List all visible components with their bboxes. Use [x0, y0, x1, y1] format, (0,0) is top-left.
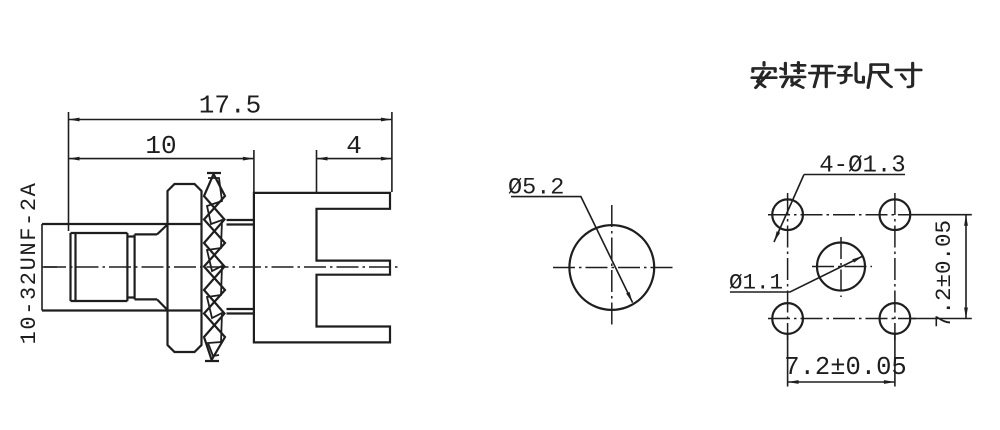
svg-text:17.5: 17.5 — [199, 91, 261, 121]
svg-text:Ø5.2: Ø5.2 — [508, 175, 564, 202]
svg-text:Ø1.1: Ø1.1 — [729, 270, 783, 296]
svg-text:4-Ø1.3: 4-Ø1.3 — [819, 153, 905, 180]
svg-text:4: 4 — [346, 131, 362, 161]
svg-text:7.2±0.05: 7.2±0.05 — [784, 353, 906, 382]
svg-text:10: 10 — [145, 131, 176, 161]
svg-text:10-32UNF-2A: 10-32UNF-2A — [17, 182, 42, 345]
svg-text:7.2±0.05: 7.2±0.05 — [931, 220, 957, 328]
